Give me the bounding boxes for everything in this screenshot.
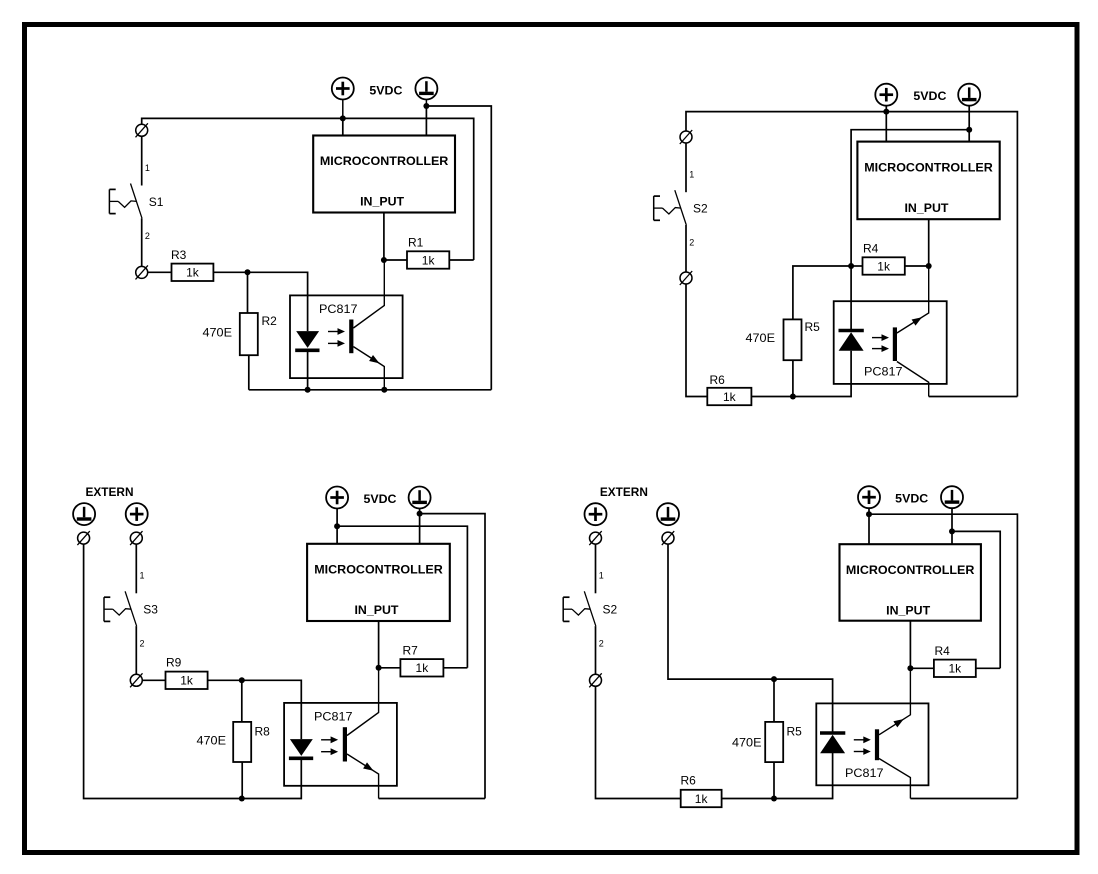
ground symbol (circuit 4) bbox=[941, 486, 963, 508]
power + symbol EXTERN (circuit 4) bbox=[585, 503, 607, 525]
wire R2 to bottom rail (circuit 1) bbox=[248, 355, 250, 390]
node IN_PUT junction (circuit 1) bbox=[381, 257, 387, 263]
microcontroller U6 box (circuit 3) bbox=[307, 544, 450, 621]
svg-text:S3: S3 bbox=[143, 603, 158, 617]
svg-text:R4: R4 bbox=[863, 241, 879, 255]
phototransistor of U7 (circuit 4) bbox=[877, 668, 910, 798]
wire junction to R7 (circuit 3) bbox=[379, 667, 401, 669]
node ground junction (circuit 1) bbox=[423, 103, 429, 109]
wire R5 top to R4 junction (circuit 2) bbox=[793, 266, 851, 319]
resistor R6 (1k) circuit 2 bbox=[707, 388, 751, 405]
wire collector to right rail (circuit 2) bbox=[929, 396, 1018, 398]
terminal pin 1 top (circuit 1) bbox=[136, 123, 148, 137]
svg-text:1: 1 bbox=[689, 170, 694, 180]
svg-text:1: 1 bbox=[599, 571, 604, 581]
node 5V junction (circuit 1) bbox=[340, 115, 346, 121]
svg-text:S2: S2 bbox=[693, 202, 708, 216]
optocoupler U3 box (PC817) circuit 2 bbox=[834, 301, 947, 384]
switch S2 (circuit 2) bbox=[654, 190, 687, 225]
wire R8 to bottom rail (circuit 3) bbox=[241, 762, 243, 799]
wire junction to LED anode (circuit 4) bbox=[774, 753, 833, 799]
terminal pin 2 (circuit 4) bbox=[589, 673, 601, 687]
svg-text:2: 2 bbox=[140, 639, 145, 649]
resistor R3 (1k) bbox=[172, 264, 214, 281]
svg-text:2: 2 bbox=[599, 639, 604, 649]
node junction R6/R5/LED (circuit 4) bbox=[771, 796, 777, 802]
svg-text:IN_PUT: IN_PUT bbox=[360, 195, 405, 209]
svg-text:1k: 1k bbox=[416, 661, 430, 675]
svg-text:EXTERN: EXTERN bbox=[86, 485, 134, 499]
svg-text:1k: 1k bbox=[695, 792, 709, 806]
wire R4 left lead (circuit 2) bbox=[851, 265, 862, 267]
wire 5V stem (circuit 3) bbox=[336, 508, 338, 526]
resistor R4 (1k) circuit 4 bbox=[934, 660, 976, 677]
terminal below ground (circuit 3) bbox=[77, 531, 89, 545]
svg-text:2: 2 bbox=[145, 231, 150, 241]
node ground junction (circuit 2) bbox=[966, 127, 972, 133]
wire ground stem (circuit 4) bbox=[951, 508, 953, 532]
wire bottom to LED cathode (circuit 3) bbox=[242, 759, 301, 799]
wire IN_PUT pin (circuit 1) bbox=[383, 213, 385, 261]
optocoupler U5 box (PC817) circuit 3 bbox=[284, 703, 397, 786]
svg-text:IN_PUT: IN_PUT bbox=[905, 201, 950, 215]
resistor R1 (1k) bbox=[407, 251, 449, 268]
wire bottom ground rail (circuit 1) bbox=[249, 389, 491, 391]
wire switch S2 pin1 lead bbox=[595, 544, 597, 594]
wire switch S3 pin1 lead bbox=[135, 544, 137, 594]
microcontroller U4 box (circuit 2) bbox=[857, 142, 999, 220]
wire IN_PUT pin (circuit 3) bbox=[378, 621, 380, 668]
terminal below ground (circuit 4) bbox=[662, 531, 674, 545]
ground symbol (circuit 3) bbox=[409, 487, 431, 509]
node IN_PUT junction (circuit 2) bbox=[926, 263, 932, 269]
terminal pin 2 (circuit 3) bbox=[130, 673, 142, 687]
light arrows (circuit 4) bbox=[854, 736, 871, 755]
wire switch S2 pin2 lead bbox=[595, 626, 597, 675]
resistor R5 (470E) circuit 4 bbox=[765, 722, 783, 762]
node IN_PUT junction (circuit 3) bbox=[376, 665, 382, 671]
wire R3 to junction (circuit 1) bbox=[213, 271, 247, 273]
power +5V symbol (circuit 1) bbox=[332, 78, 354, 100]
wire microcontroller GND pin (circuit 2) bbox=[968, 130, 970, 142]
node ground junction (circuit 3) bbox=[417, 511, 423, 517]
wire R7 to 5V rail (circuit 3) bbox=[443, 667, 467, 669]
node LED cathode junction (circuit 1) bbox=[305, 387, 311, 393]
svg-text:1k: 1k bbox=[180, 674, 194, 688]
svg-text:470E: 470E bbox=[203, 326, 233, 340]
node 5V junction (circuit 3) bbox=[334, 523, 340, 529]
optocoupler U1 box (PC817) bbox=[290, 295, 403, 378]
node 5V junction (circuit 2) bbox=[883, 109, 889, 115]
light arrows (circuit 3) bbox=[321, 736, 338, 755]
svg-text:5VDC: 5VDC bbox=[369, 84, 402, 98]
resistor R8 (470E) bbox=[233, 722, 251, 762]
svg-text:EXTERN: EXTERN bbox=[600, 485, 648, 499]
wire LED cathode to bottom (circuit 1) bbox=[307, 350, 309, 390]
wire ground stem (circuit 1) bbox=[425, 100, 427, 107]
wire 5V rail (circuit 3) bbox=[337, 526, 467, 668]
wire R6 to junction (circuit 2) bbox=[751, 396, 793, 398]
light arrows (circuit 1) bbox=[328, 328, 345, 347]
switch S2 (circuit 4) bbox=[563, 591, 596, 626]
svg-text:PC817: PC817 bbox=[845, 766, 884, 780]
wire IN_PUT pin (circuit 2) bbox=[928, 219, 930, 266]
svg-text:470E: 470E bbox=[732, 735, 762, 749]
LED of optocoupler U3 (circuit 2) bbox=[839, 331, 864, 351]
resistor R4 (1k) circuit 2 bbox=[863, 257, 905, 274]
wire switch S1 pin2 lead bbox=[141, 218, 143, 266]
power +5V symbol (circuit 4) bbox=[858, 486, 880, 508]
terminal pin 1 top (circuit 2) bbox=[680, 130, 692, 144]
resistor R7 (1k) bbox=[400, 659, 443, 676]
LED of optocoupler U1 bbox=[295, 331, 319, 350]
node junction R6/R5/LED (circuit 2) bbox=[790, 394, 796, 400]
svg-text:2: 2 bbox=[689, 238, 694, 248]
svg-text:R8: R8 bbox=[255, 724, 271, 738]
terminal pin 2 bottom (circuit 1) bbox=[136, 265, 148, 279]
wire R5 bottom leg (circuit 4) bbox=[773, 762, 775, 798]
ground symbol (circuit 2) bbox=[958, 84, 980, 106]
wire R9 to junction (circuit 3) bbox=[208, 679, 242, 681]
power +5V symbol (circuit 3) bbox=[326, 487, 348, 509]
switch S1 bbox=[109, 184, 142, 219]
svg-text:R1: R1 bbox=[408, 236, 424, 250]
svg-text:5VDC: 5VDC bbox=[364, 492, 397, 506]
wire ground to R4 right (circuit 4) bbox=[952, 531, 1000, 668]
svg-text:PC817: PC817 bbox=[319, 302, 358, 316]
svg-text:S1: S1 bbox=[149, 195, 164, 209]
wire switch S1 pin1 lead bbox=[141, 136, 143, 186]
wire terminal to R3 (circuit 1) bbox=[147, 271, 171, 273]
wire emitter to right rail (circuit 3) bbox=[379, 798, 485, 800]
svg-text:IN_PUT: IN_PUT bbox=[355, 603, 400, 617]
wire microcontroller VCC pin (circuit 1) bbox=[342, 118, 344, 135]
wire ground to right side (circuit 3) bbox=[420, 514, 485, 799]
svg-text:470E: 470E bbox=[746, 331, 776, 345]
wire junction to LED anode (circuit 1) bbox=[248, 272, 308, 331]
wire 5V stem (circuit 1) bbox=[342, 100, 344, 119]
resistor R9 (1k) bbox=[166, 672, 208, 689]
svg-text:R6: R6 bbox=[710, 373, 726, 387]
wire ground terminal down left side (circuit 3) bbox=[84, 544, 242, 799]
svg-text:1k: 1k bbox=[723, 390, 737, 404]
wire ground terminal down (circuit 4) bbox=[668, 544, 774, 679]
svg-text:1: 1 bbox=[145, 163, 150, 173]
svg-text:PC817: PC817 bbox=[864, 365, 903, 379]
node R5 top junction (circuit 4) bbox=[771, 676, 777, 682]
wire junction down to R2 (circuit 1) bbox=[247, 272, 249, 313]
svg-text:R9: R9 bbox=[166, 656, 182, 670]
wire junction to LED anode (circuit 3) bbox=[242, 680, 301, 739]
svg-text:PC817: PC817 bbox=[314, 710, 353, 724]
svg-text:470E: 470E bbox=[197, 734, 227, 748]
wire R5 bottom leg (circuit 2) bbox=[792, 360, 794, 396]
microcontroller U2 box (circuit 1) bbox=[313, 136, 455, 213]
wire switch S2 pin1 lead bbox=[685, 143, 687, 193]
wire ground to left vertical (circuit 2) bbox=[851, 130, 969, 266]
wire ground stem (circuit 2) bbox=[968, 105, 970, 130]
wire junction to R1 (circuit 1) bbox=[384, 259, 407, 261]
terminal below plus (circuit 4) bbox=[589, 531, 601, 545]
wire microcontroller GND pin (circuit 3) bbox=[419, 514, 421, 544]
wire R1 to 5V rail (circuit 1) bbox=[449, 259, 473, 261]
wire junction down to R8 (circuit 3) bbox=[241, 680, 243, 722]
wire junction to LED cathode (circuit 4) bbox=[774, 679, 833, 733]
wire microcontroller GND pin (circuit 1) bbox=[425, 106, 427, 136]
wire microcontroller VCC pin (circuit 4) bbox=[868, 514, 870, 544]
wire R5 top leg (circuit 4) bbox=[773, 679, 775, 722]
svg-text:MICROCONTROLLER: MICROCONTROLLER bbox=[864, 160, 993, 174]
wire microcontroller GND pin (circuit 4) bbox=[951, 531, 953, 544]
wire 5V rail (circuit 2) bbox=[686, 112, 1017, 397]
svg-text:MICROCONTROLLER: MICROCONTROLLER bbox=[846, 563, 975, 577]
wire ground stem (circuit 3) bbox=[419, 508, 421, 514]
svg-text:1k: 1k bbox=[422, 253, 436, 267]
wire microcontroller VCC pin (circuit 3) bbox=[336, 526, 338, 544]
svg-text:5VDC: 5VDC bbox=[895, 492, 928, 506]
wire switch S3 pin2 lead bbox=[135, 626, 137, 675]
node emitter junction (circuit 1) bbox=[381, 387, 387, 393]
phototransistor of U1 (circuit 1) bbox=[351, 260, 384, 390]
node R4 left junction (circuit 2) bbox=[848, 263, 854, 269]
svg-text:1k: 1k bbox=[186, 266, 200, 280]
wire junction to LED anode (circuit 2) bbox=[793, 351, 851, 397]
node junction R9/R8/LED (circuit 3) bbox=[239, 677, 245, 683]
svg-text:MICROCONTROLLER: MICROCONTROLLER bbox=[320, 154, 449, 168]
ground symbol EXTERN (circuit 4) bbox=[657, 503, 679, 525]
resistor R2 (470E) bbox=[240, 313, 258, 355]
wire 5V rail (circuit 4) bbox=[869, 514, 1017, 798]
wire terminal to R9 (circuit 3) bbox=[142, 679, 165, 681]
wire terminal 2 down-left side (circuit 4) bbox=[596, 686, 681, 799]
wire collector to right rail (circuit 4) bbox=[910, 798, 1017, 800]
terminal pin 2 bottom (circuit 2) bbox=[680, 271, 692, 285]
svg-text:R4: R4 bbox=[935, 644, 951, 658]
power +5V symbol (circuit 2) bbox=[875, 84, 897, 106]
node IN_PUT junction (circuit 4) bbox=[907, 665, 913, 671]
svg-text:R7: R7 bbox=[403, 644, 419, 658]
svg-text:R6: R6 bbox=[681, 773, 697, 787]
wire R6 to junction (circuit 4) bbox=[722, 798, 774, 800]
svg-text:1k: 1k bbox=[949, 662, 963, 676]
wire IN_PUT pin (circuit 4) bbox=[909, 621, 911, 669]
light arrows (circuit 2) bbox=[872, 334, 889, 352]
wire junction down to LED cathode (circuit 2) bbox=[850, 266, 852, 331]
phototransistor of U3 (circuit 2) bbox=[895, 266, 929, 397]
wire terminal 2 down-left side (circuit 2) bbox=[686, 284, 707, 397]
svg-text:IN_PUT: IN_PUT bbox=[886, 603, 931, 617]
wire 5V rail (circuit 1) bbox=[142, 118, 474, 260]
svg-text:R2: R2 bbox=[262, 314, 278, 328]
phototransistor of U5 (circuit 3) bbox=[345, 668, 379, 799]
LED of optocoupler U7 (circuit 4) bbox=[820, 733, 845, 753]
ground symbol EXTERN (circuit 3) bbox=[73, 503, 95, 525]
svg-text:R5: R5 bbox=[787, 724, 803, 738]
wire switch S2 pin2 lead bbox=[685, 225, 687, 272]
node 5V junction (circuit 4) bbox=[866, 511, 872, 517]
LED of optocoupler U5 (circuit 3) bbox=[289, 739, 313, 758]
node junction R3/R2/LED (circuit 1) bbox=[245, 269, 251, 275]
optocoupler U7 box (PC817) circuit 4 bbox=[816, 703, 928, 785]
svg-text:1k: 1k bbox=[877, 259, 891, 273]
node ground junction (circuit 4) bbox=[949, 528, 955, 534]
wire ground to right side (circuit 1) bbox=[426, 106, 491, 390]
svg-text:5VDC: 5VDC bbox=[913, 89, 946, 103]
wire 5V stem (circuit 4) bbox=[868, 508, 870, 515]
svg-text:R3: R3 bbox=[171, 248, 187, 262]
wire 5V stem (circuit 2) bbox=[885, 105, 887, 111]
wire R4 right lead (circuit 4) bbox=[976, 667, 1000, 669]
svg-text:MICROCONTROLLER: MICROCONTROLLER bbox=[314, 563, 443, 577]
power + symbol EXTERN (circuit 3) bbox=[126, 503, 148, 525]
wire R4 right lead (circuit 2) bbox=[905, 265, 929, 267]
svg-text:1: 1 bbox=[140, 571, 145, 581]
microcontroller U8 box (circuit 4) bbox=[840, 544, 981, 621]
svg-text:S2: S2 bbox=[603, 603, 618, 617]
resistor R5 (470E) circuit 2 bbox=[784, 319, 802, 360]
ground symbol (circuit 1) bbox=[415, 78, 437, 100]
terminal below plus (circuit 3) bbox=[130, 531, 142, 545]
wire junction to R4 (circuit 4) bbox=[910, 667, 934, 669]
switch S3 bbox=[104, 591, 137, 626]
wire microcontroller VCC pin (circuit 2) bbox=[885, 112, 887, 142]
svg-text:R5: R5 bbox=[805, 320, 821, 334]
node bottom junction (circuit 3) bbox=[239, 796, 245, 802]
resistor R6 (1k) circuit 4 bbox=[681, 790, 722, 807]
